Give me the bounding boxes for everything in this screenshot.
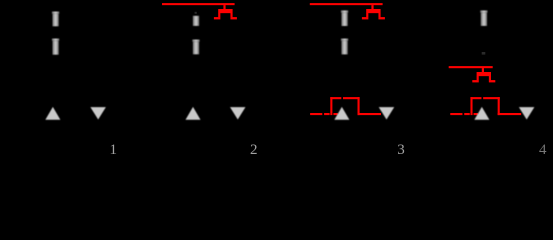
svg-text:4: 4: [539, 142, 547, 158]
svg-text:3: 3: [397, 142, 405, 158]
svg-text:1: 1: [109, 142, 117, 158]
svg-text:2: 2: [250, 142, 258, 158]
